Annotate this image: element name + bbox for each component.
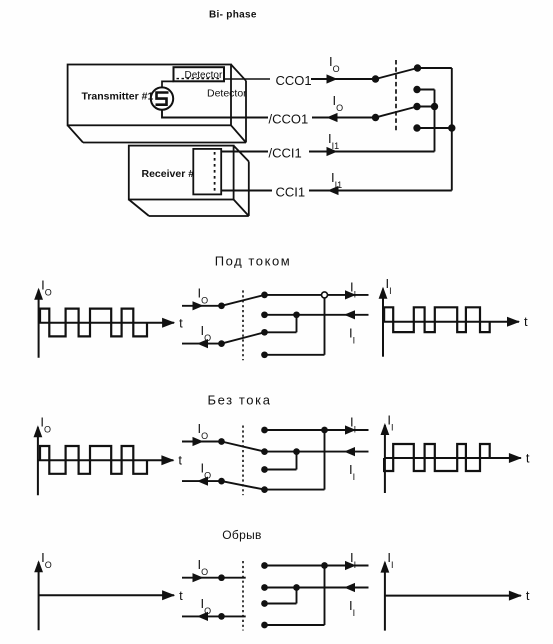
wire contact2 to inner bus (417, 89, 435, 91)
link row1-row4 (324, 295, 326, 355)
current arrow Ii1 on /CCI1 (327, 147, 338, 156)
left waveform trace Io (40, 309, 147, 337)
contact 2 (261, 311, 268, 318)
switch blade (top, closed down) (222, 442, 265, 452)
junction row1/link (322, 292, 328, 298)
dashed separator (top) (395, 60, 397, 133)
current arrow Ii (row1) (345, 425, 356, 434)
switch S1 pivot (CCO1) (372, 75, 379, 82)
switch blade (top, open) (222, 577, 246, 579)
svg-text:O: O (45, 287, 52, 297)
wire row2 to receiver side (265, 314, 369, 316)
svg-text:I: I (353, 335, 356, 345)
receiver box outline (129, 146, 249, 216)
svg-text:I: I (391, 560, 394, 570)
wire row4 stub (265, 624, 325, 626)
current arrow Ii (row1) (345, 561, 356, 570)
switch pivot (top) (218, 438, 225, 445)
svg-text:t: t (524, 314, 528, 329)
wire row3 stub (265, 469, 297, 471)
svg-text:I: I (353, 608, 356, 618)
wire row1 to receiver side (265, 429, 369, 431)
junction row2/link (293, 311, 300, 318)
wire row4 stub (265, 354, 325, 356)
right waveform axes (381, 550, 530, 631)
wire /CCO1 (312, 117, 376, 119)
junction row2/link (293, 448, 300, 455)
svg-text:O: O (201, 431, 208, 441)
inner bus wire (to /CCI1) (434, 90, 436, 152)
contact 2 (261, 584, 268, 591)
switch feed wire (top, from transmitter side) (182, 577, 222, 579)
svg-text:O: O (204, 471, 211, 481)
contact 3 (413, 103, 420, 110)
wire oscillator bottom to /CCO1 (162, 110, 268, 118)
svg-text:I: I (354, 289, 357, 299)
right waveform axes (379, 276, 528, 357)
svg-text:t: t (179, 588, 183, 603)
svg-text:I1: I1 (332, 141, 340, 151)
current arrow Ii1 on CCI1 (328, 186, 339, 195)
link row1-row4 (324, 566, 326, 626)
right waveform trace Ii (384, 444, 490, 471)
svg-text:/CCO1: /CCO1 (269, 112, 309, 127)
opto connector (in receiver) (193, 149, 221, 195)
junction row1/link (321, 427, 328, 434)
transmitter box outline (68, 65, 246, 143)
contact 4 (261, 622, 268, 629)
current arrow Io (bottom) (197, 477, 208, 486)
link row1-row4 (324, 430, 326, 490)
switch pivot (top) (218, 574, 225, 581)
switch feed wire (bottom) (182, 480, 222, 482)
current arrow Ii (row2) (344, 447, 355, 456)
current arrow Io (bottom) (197, 339, 208, 348)
current arrow Ii (row1) (345, 290, 356, 299)
dashed separator (242, 426, 244, 496)
contact 3 (261, 600, 268, 607)
contact 4 (261, 351, 268, 358)
current arrow Io on /CCO1 (327, 113, 338, 122)
svg-text:O: O (45, 560, 52, 570)
contact 4 (413, 124, 420, 131)
svg-text:Под током: Под током (215, 254, 291, 269)
svg-text:t: t (526, 588, 530, 603)
wire CCI1 (221, 190, 272, 192)
switch pivot (bottom) (218, 613, 225, 620)
oscillator U1 (square-wave source) (151, 87, 173, 109)
current arrow Io (top) (193, 437, 204, 446)
switch feed wire (bottom) (182, 343, 222, 345)
svg-text:Без тока: Без тока (207, 393, 271, 408)
svg-text:I1: I1 (335, 180, 343, 190)
contact 1 (414, 64, 421, 71)
contact 3 (261, 466, 268, 473)
current arrow Ii (row2) (344, 310, 355, 319)
left waveform axes (34, 550, 183, 631)
switch S1 blade (376, 68, 418, 79)
switch pivot (bottom) (218, 478, 225, 485)
wire row2 to receiver side (265, 451, 369, 453)
svg-text:I: I (391, 423, 394, 433)
switch feed wire (top, from transmitter side) (182, 305, 222, 307)
left waveform trace Io (40, 446, 147, 474)
svg-text:I: I (354, 425, 357, 435)
contact 2 (261, 448, 268, 455)
current arrow Io (top) (193, 573, 204, 582)
svg-text:O: O (204, 606, 211, 616)
wire row1 to receiver side (265, 565, 369, 567)
switch blade (bottom, open) (222, 615, 246, 617)
switch pivot (top) (218, 302, 225, 309)
switch blade (bottom, closed down) (222, 481, 265, 490)
wire row3 stub (265, 603, 297, 605)
svg-text:/CCI1: /CCI1 (269, 146, 302, 161)
svg-text:Transmitter #1: Transmitter #1 (82, 91, 154, 103)
wire row3 stub (265, 331, 297, 333)
wire /CCI1 (221, 151, 268, 153)
switch feed wire (top, from transmitter side) (182, 441, 222, 443)
contact 1 (261, 292, 268, 299)
svg-text:Receiver #: Receiver # (142, 168, 195, 180)
svg-text:I: I (354, 560, 357, 570)
link row2-row3 (296, 315, 298, 333)
junction row1/link (321, 562, 328, 569)
wire contact4 to right bus (417, 127, 452, 129)
svg-text:O: O (201, 295, 208, 305)
right waveform trace Ii (384, 307, 490, 332)
current arrow Ii (row2) (344, 583, 355, 592)
svg-text:CCO1: CCO1 (276, 73, 312, 88)
switch feed wire (bottom) (182, 615, 222, 617)
wire contact1 to right bus (418, 67, 452, 69)
svg-text:I: I (353, 472, 356, 482)
wire CCO1 (224, 78, 270, 80)
svg-text:O: O (44, 425, 51, 435)
current arrow Io (bottom) (197, 612, 208, 621)
left waveform axes (34, 415, 183, 496)
contact 4 (261, 486, 268, 493)
svg-text:t: t (178, 453, 182, 468)
switch blade (bottom, closed up) (222, 332, 265, 343)
svg-text:O: O (336, 103, 343, 113)
contact 1 (261, 427, 268, 434)
junction row2/link (293, 584, 300, 591)
wire row1 to receiver side (265, 294, 369, 296)
switch S2 blade (376, 107, 418, 118)
link row2-row3 (296, 588, 298, 604)
junction contact3/bus (431, 103, 438, 110)
svg-text:I: I (389, 286, 392, 296)
wire contact3 to inner bus (417, 106, 435, 108)
svg-text:CCI1: CCI1 (276, 185, 306, 200)
switch pivot (bottom) (218, 340, 225, 347)
contact 1 (261, 562, 268, 569)
link row2-row3 (296, 452, 298, 470)
svg-text:O: O (201, 567, 208, 577)
wire oscillator top to detector (162, 81, 174, 87)
switch blade (top, closed up) (222, 295, 265, 306)
right waveform axes (381, 413, 530, 494)
current arrow Io (top) (193, 301, 204, 310)
svg-text:Обрыв: Обрыв (222, 528, 261, 542)
svg-text:Bi- phase: Bi- phase (209, 10, 257, 21)
svg-text:Detector: Detector (207, 87, 247, 99)
detector box (in transmitter) (174, 67, 225, 81)
svg-text:O: O (204, 333, 211, 343)
svg-text:t: t (179, 315, 183, 330)
junction contact4/bus (448, 124, 455, 131)
switch S2 pivot (/CCO1) (372, 114, 379, 121)
wire row4 stub (265, 489, 325, 491)
wire row2 to receiver side (265, 587, 369, 589)
right bus wire (to CCI1) (451, 68, 453, 191)
contact 3 (261, 329, 268, 336)
left waveform axes (34, 277, 183, 358)
dashed separator (242, 290, 244, 360)
svg-text:O: O (333, 64, 340, 74)
dashed separator (242, 561, 244, 631)
contact 2 (413, 86, 420, 93)
current arrow Io on CCO1 (327, 74, 338, 83)
svg-text:t: t (526, 451, 530, 466)
